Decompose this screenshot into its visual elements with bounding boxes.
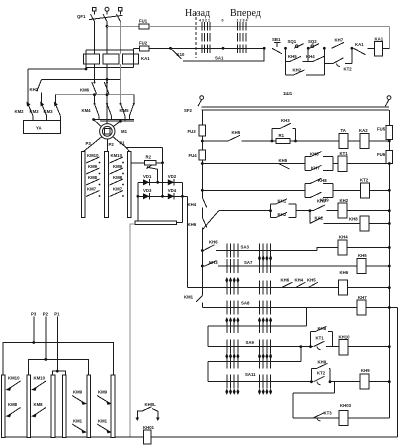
node P3 [32, 341, 35, 344]
svg-text:SA1: SA1 [215, 56, 224, 61]
contact KM1 row2 right a [72, 419, 87, 434]
svg-text:KH5: KH5 [288, 54, 297, 59]
node after SQ2 [323, 47, 326, 50]
svg-text:KM1: KM1 [98, 419, 108, 424]
svg-text:KH3: KH3 [209, 260, 218, 265]
contact KM8 row2 left [6, 402, 21, 417]
svg-text:Вперед: Вперед [230, 8, 261, 19]
svg-text:SA7: SA7 [244, 260, 253, 265]
wire R9 [202, 307, 357, 309]
wire KA2 to bus [369, 140, 389, 142]
svg-text:KH2: KH2 [278, 212, 287, 217]
right ladder bus [388, 110, 390, 126]
wire coil to bus [369, 223, 389, 225]
svg-text:KH7: KH7 [358, 295, 367, 300]
dashed linkage line [195, 12, 197, 58]
wire phase B below KA1 [106, 64, 108, 124]
svg-text:FU4: FU4 [189, 153, 198, 158]
node P1 [56, 370, 59, 373]
wire control line 2 [134, 47, 140, 49]
contact KH5 bypass of SQ1 [286, 48, 309, 61]
wire coil to bus [366, 265, 389, 267]
resistor bar b1 [1, 375, 5, 438]
wire jog [317, 248, 338, 251]
contact KA2 [310, 216, 324, 224]
drum closed marks below R12 [225, 389, 228, 395]
resistor bar 1 [81, 152, 85, 218]
contact KH9 bypass [311, 359, 330, 381]
node R4 pair left [269, 209, 272, 212]
wire motor leads [94, 120, 101, 127]
transformer coil TA [339, 128, 348, 149]
node SA1 on control line 2 [222, 47, 225, 50]
svg-text:KH4: KH4 [339, 234, 348, 239]
drum closed marks SA7 row [258, 255, 261, 261]
svg-text:KM8: KM8 [8, 402, 18, 407]
node feed2 on phase B [106, 78, 109, 81]
wire diagonal feed [202, 211, 219, 230]
wire to KH9 contact [296, 210, 313, 212]
contact KM8 col2 [110, 175, 124, 185]
svg-text:KM5: KM5 [120, 108, 130, 113]
svg-text:KH5: KH5 [307, 277, 316, 282]
wire [202, 163, 305, 165]
wire phase C vertical [120, 22, 122, 54]
svg-text:SA8: SA8 [241, 300, 250, 305]
wire R10 [208, 346, 313, 348]
wire P1 to rectifier [126, 146, 163, 148]
svg-text:KH3: KH3 [281, 118, 290, 123]
contact KH2 bypass lower [271, 211, 297, 218]
contact KH01 changeover with arrows [136, 402, 160, 421]
svg-text:SA11: SA11 [245, 372, 256, 377]
node R6 right [388, 246, 391, 249]
svg-text:KH7: KH7 [335, 38, 344, 43]
node R9 bus [388, 306, 391, 309]
svg-text:KH9: KH9 [317, 198, 326, 203]
relay coil KH5 [357, 253, 367, 274]
node after R1 [294, 140, 297, 143]
svg-text:KH03: KH03 [340, 403, 352, 408]
relay coil KH6 [339, 270, 349, 295]
svg-text:KH1: KH1 [278, 199, 287, 204]
wire rotor lead P1 [113, 137, 126, 148]
relay coil KA2 [359, 128, 369, 149]
wire coil to bus [348, 346, 389, 348]
wire intermediate row L362 [208, 360, 301, 362]
wire loop top [293, 392, 335, 394]
node P2 [44, 358, 47, 361]
svg-text:P2: P2 [43, 312, 49, 317]
contact KH5 [228, 130, 241, 141]
svg-text:KM2: KM2 [15, 109, 25, 114]
node R12 pair right [329, 380, 332, 383]
left ladder bus [201, 110, 203, 125]
relay coil KH8 [349, 216, 369, 231]
svg-text:VD3: VD3 [143, 188, 152, 193]
contact KH8 bypass upper [305, 178, 333, 197]
svg-text:KH6: KH6 [340, 270, 349, 275]
contact KH5 lower [279, 158, 290, 169]
terminal right rail [387, 96, 391, 100]
svg-text:SQ1: SQ1 [288, 39, 297, 44]
svg-text:KH4: KH4 [188, 202, 197, 207]
wire to KT2 [333, 189, 361, 191]
svg-text:KA1: KA1 [141, 56, 150, 61]
contact KH9 bypass lower [305, 190, 333, 202]
contact KH6 on bus [188, 218, 207, 228]
wire long brake return left [130, 224, 135, 437]
svg-text:SB1: SB1 [272, 37, 281, 42]
wire R4 [219, 210, 271, 212]
svg-text:KM10: KM10 [34, 376, 46, 381]
switch blade left [198, 100, 202, 107]
wire P1 to bar3 [126, 147, 130, 151]
svg-text:KH9: KH9 [318, 359, 327, 364]
svg-text:KH2: KH2 [340, 198, 349, 203]
svg-text:R1: R1 [279, 133, 285, 138]
brake electromagnet YA [23, 121, 60, 134]
fuse FU2 [140, 46, 150, 51]
resistor bar b4 [62, 375, 66, 438]
wire bridge left vertical [137, 182, 139, 221]
svg-text:KA2: KA2 [359, 128, 368, 133]
wire tap down [309, 211, 311, 224]
svg-text:KM10: KM10 [8, 376, 20, 381]
node R4 right [388, 209, 391, 212]
svg-text:KH7: KH7 [311, 165, 320, 170]
wire coil to down line [382, 47, 389, 49]
svg-text:KA2: KA2 [315, 216, 324, 221]
svg-text:KM8: KM8 [113, 175, 123, 180]
contact KM9 col2 [110, 164, 124, 174]
wire feed 1 drop [27, 69, 29, 104]
node FU1 tap [106, 25, 109, 28]
svg-text:P3: P3 [86, 141, 92, 146]
node R2 left [201, 162, 204, 165]
contactor KM6 main contacts [80, 82, 109, 95]
node feed3/phaseB [106, 93, 109, 96]
svg-text:KH8: KH8 [318, 178, 327, 183]
relay coil KH9 [360, 368, 370, 389]
relay coil KH4 [338, 234, 348, 255]
drum SA columns group A [226, 244, 228, 258]
svg-text:M1: M1 [121, 129, 128, 134]
wire R9 tap down [306, 308, 308, 327]
contact KT2 (time) [314, 371, 326, 385]
resistor bar b3 [51, 375, 55, 438]
node row2 center [161, 195, 164, 198]
svg-text:KM8: KM8 [88, 175, 98, 180]
contact KH7 [332, 38, 345, 49]
node R12 pair left [310, 380, 313, 383]
motor M1 [100, 124, 128, 139]
svg-text:YA: YA [36, 126, 42, 131]
node R10 pair [309, 345, 312, 348]
wire P1 drop [56, 317, 58, 372]
svg-text:KH8: KH8 [318, 326, 327, 331]
contact KM10 row1 mid [31, 376, 46, 391]
contact KH4 bypass of SQ2 [306, 48, 324, 61]
relay coil KH01 [143, 425, 155, 444]
svg-text:KM9: KM9 [113, 164, 123, 169]
wire R10 tap down [300, 347, 302, 362]
relay coil KA1 [375, 37, 384, 56]
svg-text:FU3: FU3 [188, 129, 197, 134]
svg-text:KT1: KT1 [340, 151, 349, 156]
svg-text:KT2: KT2 [344, 67, 353, 72]
wire R1 left [202, 140, 228, 142]
svg-text:TA: TA [341, 128, 346, 133]
svg-text:KH5: KH5 [232, 130, 241, 135]
fuse FU6 [377, 151, 393, 164]
wire to coil [327, 210, 339, 212]
svg-text:KM6: KM6 [80, 88, 90, 93]
wire P2 distribution [29, 359, 89, 375]
node R7 left [201, 265, 204, 268]
wire P3 distribution [3, 343, 113, 375]
svg-text:KH6: KH6 [188, 222, 197, 227]
contact KA1 [354, 42, 366, 55]
contact KH1 bypass upper [271, 199, 297, 218]
contact KH9 [313, 198, 326, 210]
node R1 right [388, 140, 391, 143]
relay coil KH2 [338, 198, 349, 218]
node wiper/row1 [156, 181, 159, 184]
svg-text:KT3: KT3 [324, 410, 333, 415]
wire KT1 to bus [347, 163, 389, 165]
drum closed marks below R10 [225, 353, 228, 359]
svg-text:KM9: KM9 [88, 164, 98, 169]
wire feed 3 (y=94.7) [55, 94, 134, 96]
node row2 right [181, 195, 184, 198]
contact KH2 upper [30, 79, 42, 103]
svg-text:1Ш1: 1Ш1 [283, 91, 293, 96]
svg-text:KM8: KM8 [34, 402, 44, 407]
wire rotor lead P2 [106, 139, 108, 152]
svg-text:Назад: Назад [185, 8, 210, 19]
contactor KM4 contacts [82, 103, 112, 120]
limit switch SQ1 [288, 39, 304, 48]
contact KM8 row2 mid [31, 402, 46, 417]
wire feed 2 (y=79.4) [42, 78, 121, 80]
contact KH2 bypass both [286, 61, 325, 75]
wire control line 1 down at right [389, 26, 391, 48]
node R10 right [388, 345, 391, 348]
wire link down to R10 [207, 326, 209, 347]
resistor R1 [276, 133, 290, 144]
wire to coil [326, 346, 333, 348]
wire stubs from terminals [93, 11, 95, 14]
svg-text:K10: K10 [177, 52, 185, 57]
node R12 right [388, 380, 391, 383]
wire to TA [290, 140, 339, 142]
switch blade right [385, 100, 389, 107]
drum closed marks above R10 [225, 317, 228, 323]
relay coil KH3 [339, 403, 352, 426]
svg-text:KH8: KH8 [349, 217, 358, 222]
svg-text:P2: P2 [109, 142, 115, 147]
diode VD3 [143, 188, 152, 200]
node feed3/phaseA [93, 93, 96, 96]
drum SA columns group B [259, 244, 261, 258]
wire KT2 to bus [370, 189, 390, 191]
relay coil KH10 [339, 334, 351, 355]
svg-text:0: 0 [222, 19, 224, 23]
svg-text:SA3: SA3 [241, 245, 250, 250]
wire return corner down [396, 308, 398, 438]
wire long brake feed right [187, 196, 189, 287]
wire control line 1 continues [149, 25, 390, 27]
wire R12 [208, 381, 313, 383]
wire bottom return [2, 436, 398, 438]
wire R7 [202, 265, 205, 267]
svg-text:VD4: VD4 [168, 188, 177, 193]
svg-text:KM4: KM4 [82, 108, 92, 113]
node R1 left [201, 140, 204, 143]
svg-text:KH2: KH2 [30, 87, 39, 92]
contact KM3 right [44, 104, 61, 121]
rail 2 [202, 109, 389, 111]
contact KM10 col1 [86, 153, 100, 163]
wire TA-KA2 [348, 140, 360, 142]
svg-text:KM1: KM1 [73, 419, 83, 424]
wire R2 to VD row2 [162, 163, 164, 197]
terminal left rail [200, 96, 204, 100]
wire coil past bus [366, 307, 397, 309]
svg-text:KH4: KH4 [306, 54, 315, 59]
rail 1 [202, 106, 389, 108]
contact KH3 bypass of R1 [272, 118, 296, 141]
pushbutton SB1 [272, 37, 282, 54]
svg-text:KH0L: KH0L [145, 402, 157, 407]
contact KH8 bypass upper [305, 151, 333, 170]
wire R13 [293, 417, 390, 419]
svg-text:KH5: KH5 [358, 253, 367, 258]
wire R8 from brake feed [188, 287, 339, 289]
svg-text:KH6: KH6 [281, 277, 290, 282]
wire phase B vertical [106, 22, 108, 54]
contact KT2 (time) bypass of KH7 [324, 48, 352, 71]
diode VD2 [168, 174, 177, 186]
wire coil to bus [369, 381, 389, 383]
contact KT3 (time) [314, 410, 333, 421]
wire bridge right vertical [181, 182, 183, 222]
svg-text:KM10: KM10 [111, 153, 123, 158]
diode VD4 [168, 188, 177, 200]
fuse FU1 [139, 24, 149, 29]
node R6 left [201, 249, 204, 252]
contact KH4 [295, 277, 306, 287]
node R2 right [388, 162, 391, 165]
contact KT1 (time) [314, 335, 325, 349]
fuse FU5 [377, 126, 393, 140]
wire loop left down [292, 393, 294, 418]
node after SB1 [284, 47, 287, 50]
svg-text:KM10: KM10 [87, 153, 99, 158]
svg-text:KH9: KH9 [361, 368, 370, 373]
contact KM1 (in bus) [184, 295, 202, 302]
svg-text:KH8: KH8 [310, 151, 319, 156]
svg-text:FU5: FU5 [377, 127, 386, 132]
wire coil to bus [347, 247, 389, 249]
terminal L1 [93, 8, 97, 12]
node R1 resistor left [271, 140, 274, 143]
wire P2 drop [45, 317, 47, 360]
wire to KT1 [333, 163, 338, 165]
wire motor collector line 1 [94, 119, 134, 121]
contact KM7 col2 [110, 187, 124, 197]
contact KM2 [15, 104, 34, 121]
node motor left [92, 118, 95, 121]
wire motor collector line 2 [100, 120, 134, 122]
node R2 right [161, 161, 164, 164]
contact KH7 bypass lower [305, 164, 333, 171]
contact KM8 col1 [86, 175, 100, 185]
breaker QF1 [77, 14, 123, 22]
wire R6 [216, 250, 317, 252]
wire R12 tap down [333, 382, 335, 393]
svg-text:QF1: QF1 [77, 14, 86, 19]
svg-text:KH10: KH10 [339, 334, 351, 339]
wire feed 3 drop [54, 95, 56, 104]
wire control line 1 [107, 25, 139, 27]
drum closed marks above R8 [225, 277, 228, 283]
drum SA1 contact columns (Vpered) [236, 22, 238, 31]
terminal L2 [105, 7, 109, 11]
wire into coil [368, 47, 375, 49]
time relay coil KT1 [338, 151, 348, 172]
resistor bar 3 [127, 152, 131, 218]
contact KM9 row1 right b [97, 390, 112, 405]
drum SA1 contact columns (Nazad) [201, 22, 203, 31]
svg-text:KH01: KH01 [143, 425, 155, 430]
svg-text:KH2: KH2 [293, 68, 302, 73]
diode row 1 wire [138, 181, 183, 183]
node R3 right [388, 189, 391, 192]
wire phase C below KA1 [120, 64, 122, 80]
fuse FU3 [188, 125, 206, 136]
svg-text:P3: P3 [31, 312, 37, 317]
wire phase drops to reversing contacts [94, 95, 96, 104]
svg-text:KH4: KH4 [295, 277, 304, 282]
node R8 right [388, 286, 391, 289]
contact KH3 [205, 260, 218, 266]
contact KM9 row1 right a [72, 390, 87, 405]
brake coil resistor bar (horizontal) [135, 221, 177, 225]
svg-text:P1: P1 [54, 312, 60, 317]
svg-text:KA1: KA1 [375, 37, 384, 42]
svg-text:KA1: KA1 [355, 42, 364, 47]
overcurrent relay KA1 coils [84, 48, 151, 69]
svg-text:KH5: KH5 [279, 158, 288, 163]
resistor R2 (adjustable) [131, 155, 163, 183]
diode VD1 [143, 174, 152, 186]
svg-text:SA9: SA9 [246, 340, 255, 345]
svg-text:P1: P1 [120, 141, 126, 146]
svg-text:KM7: KM7 [87, 187, 97, 192]
wire coil to bus [348, 287, 390, 289]
wire [202, 189, 305, 191]
svg-text:FU6: FU6 [377, 152, 386, 157]
svg-text:KH6: KH6 [209, 240, 218, 245]
wire bridge right to bar [177, 222, 183, 224]
svg-text:KM9: KM9 [98, 390, 108, 395]
wire to coil [324, 223, 361, 225]
node R3 left [201, 189, 204, 192]
resistor bar 2 [105, 152, 109, 218]
node R10 pair left [299, 345, 302, 348]
